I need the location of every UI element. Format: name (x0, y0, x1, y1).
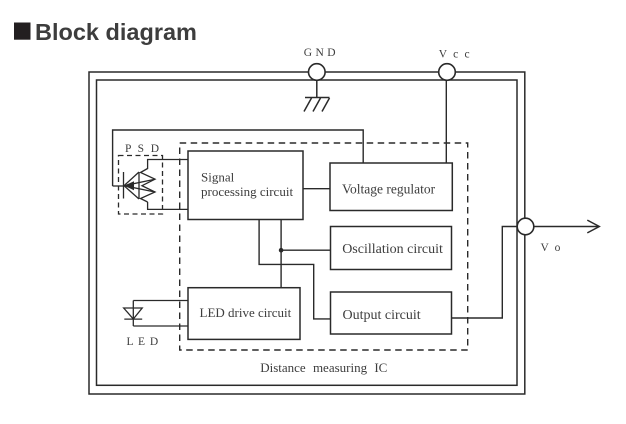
wire: output circuit to Vo terminal (452, 227, 518, 319)
svg-text:Output circuit: Output circuit (343, 308, 421, 323)
block: Oscillation circuit (331, 227, 452, 270)
svg-text:Voltage regulator: Voltage regulator (342, 181, 436, 196)
svg-text:L E D: L E D (127, 336, 160, 348)
svg-text:Distance measuring IC: Distance measuring IC (260, 360, 387, 375)
dashed box: Distance measuring IC (180, 143, 468, 350)
wire: junction to oscillation circuit (281, 249, 330, 251)
wire: PSD bottom to signal processing (148, 202, 188, 209)
ground symbol (304, 81, 330, 112)
junction dot (279, 248, 284, 253)
block: LED drive circuit (188, 288, 300, 340)
svg-text:Signal: Signal (201, 170, 235, 185)
terminal GND (304, 47, 339, 80)
block: Output circuit (331, 292, 452, 334)
svg-text:V o: V o (541, 242, 563, 254)
wire: Vcc to voltage regulator (445, 81, 447, 164)
svg-text:processing circuit: processing circuit (201, 184, 293, 199)
output arrow (534, 226, 599, 228)
wire: signal processing to voltage regulator (303, 188, 330, 190)
block: Voltage regulator (330, 163, 452, 211)
terminal Vcc (439, 49, 472, 81)
block: Signal processing circuit (188, 151, 303, 220)
svg-text:P S D: P S D (125, 143, 161, 155)
PSD photodiode symbol (113, 169, 155, 203)
terminal Vo (517, 218, 599, 254)
outer enclosure rectangle (89, 72, 525, 394)
svg-text:V c c: V c c (439, 49, 472, 61)
wire: LED bottom rail (133, 325, 188, 327)
wire: LED top rail (133, 300, 188, 302)
svg-text:Oscillation circuit: Oscillation circuit (342, 242, 443, 257)
wire: top-left wire from PSD anode to voltage regulator (113, 130, 364, 186)
wire: signal processing to output circuit (259, 219, 330, 319)
title: Block diagram heading (14, 19, 197, 45)
svg-text:Block diagram: Block diagram (35, 19, 197, 45)
LED diode symbol (124, 301, 143, 327)
wire: PSD top to signal processing (148, 160, 188, 170)
svg-text:GND: GND (304, 47, 339, 59)
wire: signal processing to LED drive circuit (280, 219, 282, 287)
svg-text:LED drive circuit: LED drive circuit (200, 305, 292, 320)
PSD dashed box (119, 156, 163, 215)
inner enclosure rectangle (97, 80, 518, 385)
